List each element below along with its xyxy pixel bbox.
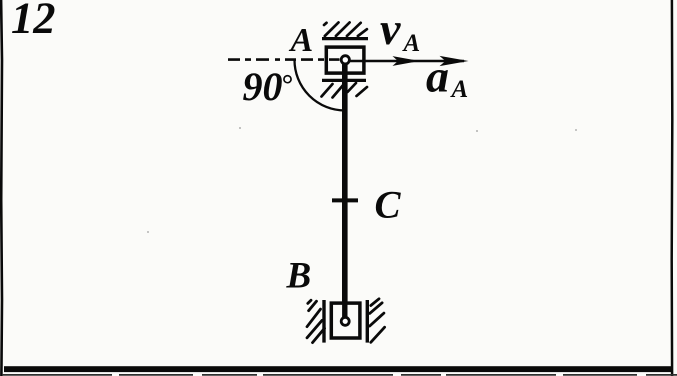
angle arc 90 degrees	[295, 60, 346, 111]
guide rail above slider A	[322, 37, 368, 40]
svg-text:B: B	[286, 256, 312, 297]
svg-text:v: v	[380, 3, 401, 54]
svg-text:A: A	[289, 22, 314, 59]
frame bottom edge dashes	[2, 374, 677, 376]
frame bottom thick rule	[4, 366, 673, 372]
scan speck 1	[239, 127, 241, 129]
svg-text:A: A	[450, 76, 469, 103]
hatching above rail A	[324, 22, 367, 36]
arrowhead a_A	[440, 56, 469, 66]
scan speck 2	[476, 130, 478, 132]
midpoint tick C on rod	[332, 198, 358, 202]
svg-text:a: a	[426, 51, 449, 102]
velocity/acceleration arrow line	[348, 60, 464, 63]
guide rail right of slider B	[366, 300, 369, 343]
pin A	[341, 56, 349, 64]
frame right border	[670, 0, 673, 376]
dash-dot centerline through A	[228, 58, 340, 61]
arrowhead v_A	[393, 56, 420, 66]
scan speck 4	[147, 231, 149, 233]
svg-text:90°: 90°	[243, 64, 293, 109]
guide rail below slider A	[322, 79, 366, 82]
frame left border	[0, 0, 3, 376]
slider block B	[331, 303, 360, 338]
svg-text:C: C	[375, 184, 402, 227]
rod AB	[342, 60, 348, 318]
hatching left of rail B	[307, 300, 325, 342]
pin B	[341, 317, 349, 325]
scan speck 3	[575, 129, 577, 131]
hatching below rail A	[322, 83, 368, 98]
hatching right of rail B	[370, 299, 385, 343]
guide rail left of slider B	[322, 300, 325, 343]
svg-text:A: A	[402, 30, 421, 57]
svg-text:12: 12	[11, 0, 56, 43]
rod end inside slider B	[342, 299, 347, 318]
slider block A	[326, 47, 364, 73]
